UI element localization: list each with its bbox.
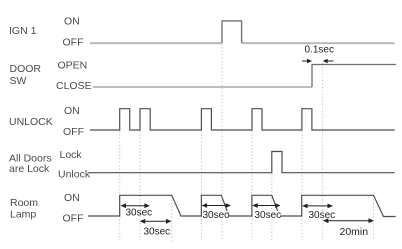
svg-text:Lock: Lock: [60, 149, 83, 161]
20min dimension arrow (322.7 to 374): [327, 220, 371, 222]
svg-text:are Lock: are Lock: [9, 163, 50, 175]
svg-text:30sec: 30sec: [309, 210, 336, 221]
svg-text:IGN 1: IGN 1: [9, 25, 37, 37]
svg-text:OFF: OFF: [63, 126, 84, 138]
IGN1 ON pulse: [222, 21, 242, 43]
0.1sec right arrow pointing left: [327, 60, 334, 62]
Room Lamp waveform wire with fade ramps: [88, 195, 396, 216]
30sec label 5: [308, 211, 334, 219]
wire IGN1 OFF baseline right segment: [242, 42, 395, 44]
svg-text:Lamp: Lamp: [10, 209, 36, 221]
svg-text:SW: SW: [10, 75, 27, 87]
svg-text:30sec: 30sec: [203, 210, 230, 221]
svg-text:OFF: OFF: [63, 37, 84, 49]
svg-text:Room: Room: [10, 197, 38, 209]
svg-text:20min: 20min: [340, 226, 369, 238]
DOOR SW open transition and OPEN level wire: [312, 65, 396, 88]
dotted guide line at lamp final ramp start x=373.5: [373, 196, 375, 240]
svg-text:ON: ON: [64, 16, 80, 28]
svg-text:DOOR: DOOR: [10, 63, 42, 75]
dotted guide line at unlock pulse4 rise x=252: [251, 131, 253, 240]
30sec label 3: [202, 211, 228, 219]
wire IGN1 OFF baseline left segment: [90, 42, 221, 44]
30sec dimension arrow 3 (201.3 to 231): [205, 205, 228, 207]
svg-text:30sec: 30sec: [126, 208, 153, 219]
30sec dimension arrow 4 (252 to 280.5): [256, 205, 278, 207]
dotted guide line at unlock pulse3 rise x=201.4: [200, 131, 202, 240]
30sec dimension arrow 5 (302 to 333): [306, 205, 330, 207]
0.1sec left arrow pointing right: [302, 60, 308, 62]
svg-text:30sec: 30sec: [255, 210, 282, 221]
svg-text:CLOSE: CLOSE: [56, 80, 92, 92]
wire DOOR SW CLOSE baseline: [93, 86, 312, 88]
dotted guide line at unlock pulse1 rise x=120: [119, 131, 121, 240]
svg-text:Unlock: Unlock: [58, 169, 91, 181]
svg-text:OPEN: OPEN: [58, 60, 88, 72]
svg-text:UNLOCK: UNLOCK: [9, 116, 53, 128]
svg-text:ON: ON: [64, 105, 80, 117]
dotted guide line at IGN pulse rise x=222: [221, 44, 223, 240]
svg-text:ON: ON: [64, 192, 80, 204]
dotted guide line at unlock pulse2 rise x=140: [139, 131, 141, 240]
30sec dimension arrow 2 (140 to 171.5): [143, 220, 168, 222]
30sec dimension arrow 1 (120 to 150): [124, 205, 146, 207]
dotted guide line at lock pulse rise x=272: [271, 174, 273, 240]
All-doors-lock waveform wire with lock pulse: [89, 152, 395, 173]
dotted guide line at lamp ramp1 start x=171.7: [171, 196, 173, 242]
30sec label 4: [254, 211, 280, 219]
dotted guide line at unlock pulse5 rise x=302: [301, 131, 303, 240]
dotted guide line at door open +0.1sec x=322.7: [322, 63, 324, 240]
svg-text:0.1sec: 0.1sec: [305, 45, 334, 56]
UNLOCK waveform wire with five pulses: [90, 109, 395, 130]
svg-text:30sec: 30sec: [144, 227, 171, 238]
svg-text:OFF: OFF: [63, 213, 84, 225]
